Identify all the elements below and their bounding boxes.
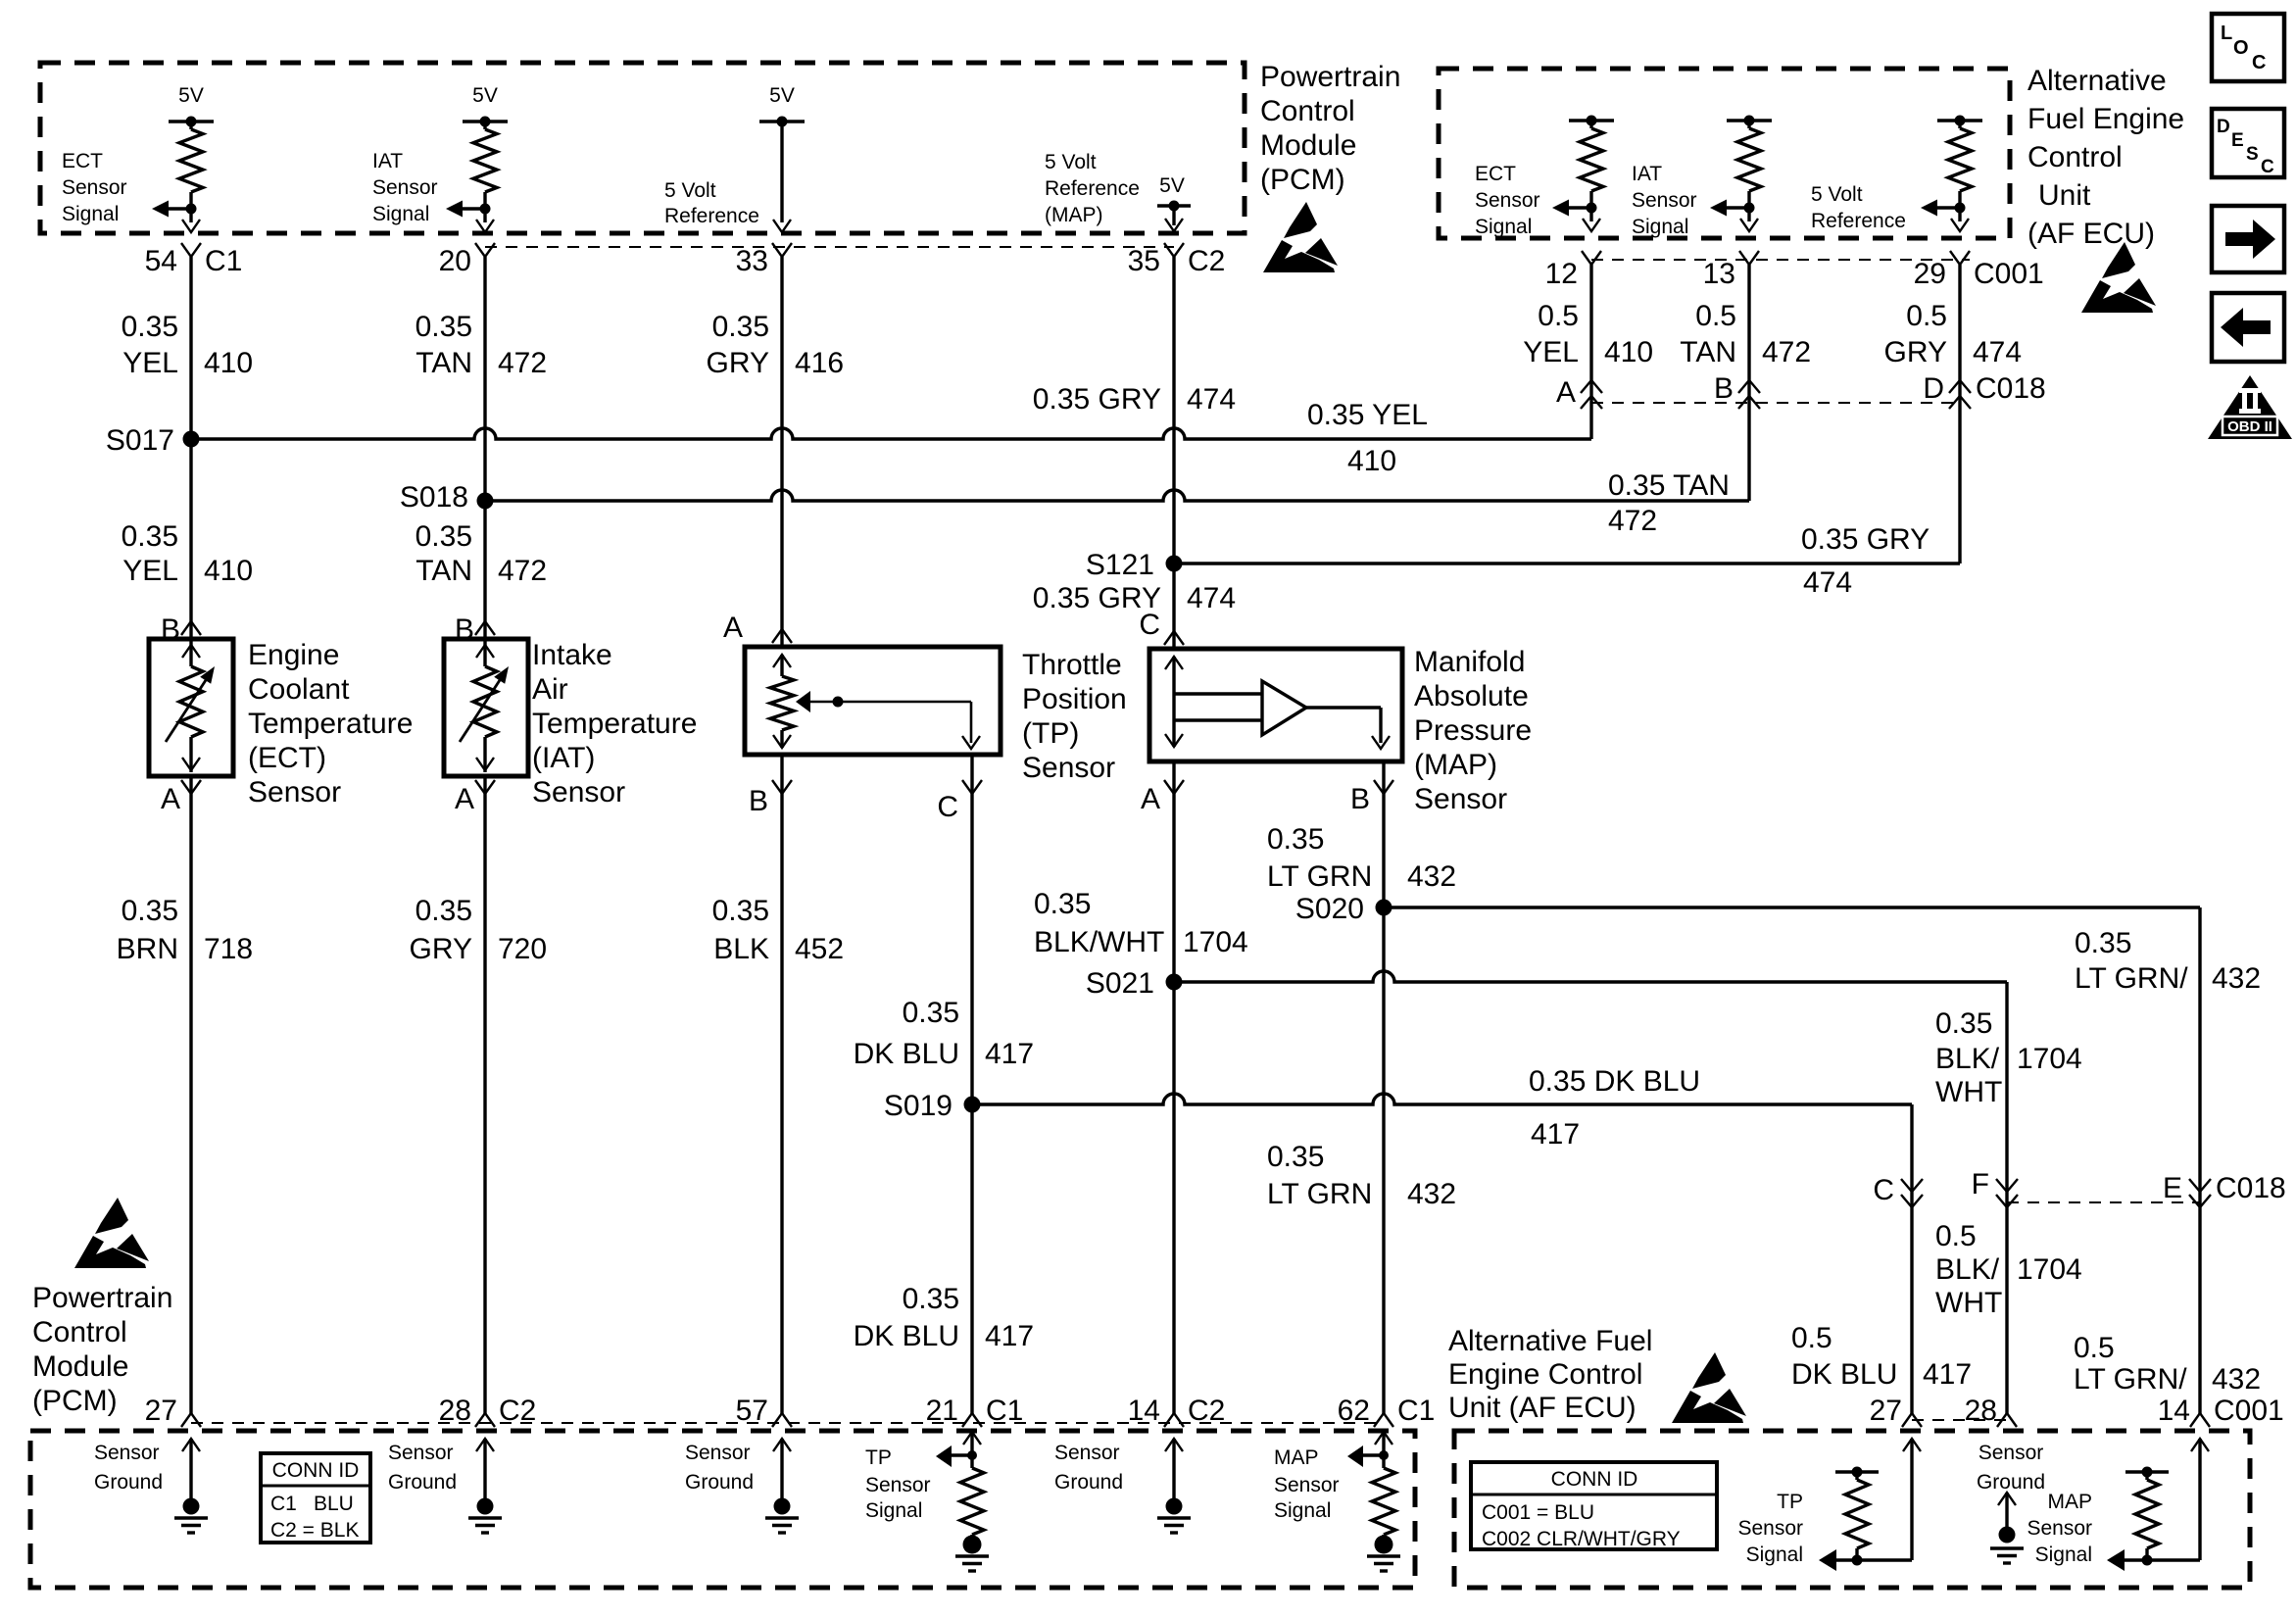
svg-text:C: C	[2261, 157, 2274, 177]
svg-text:13: 13	[1703, 258, 1735, 290]
svg-text:S021: S021	[1086, 967, 1154, 1000]
svg-text:Sensor: Sensor	[532, 776, 625, 808]
svg-text:Signal: Signal	[1475, 216, 1532, 238]
svg-text:C001: C001	[1974, 258, 2044, 290]
svg-text:432: 432	[2212, 1363, 2261, 1396]
svg-text:Throttle: Throttle	[1022, 649, 1122, 681]
svg-text:452: 452	[795, 933, 844, 965]
svg-text:0.35: 0.35	[1267, 823, 1324, 856]
svg-text:C018: C018	[2216, 1172, 2286, 1204]
svg-text:20: 20	[439, 245, 471, 277]
svg-text:Intake: Intake	[532, 639, 612, 671]
svg-text:Sensor: Sensor	[62, 176, 127, 199]
svg-text:Control: Control	[2027, 141, 2123, 173]
svg-text:C001 = BLU: C001 = BLU	[1482, 1501, 1594, 1524]
svg-text:410: 410	[204, 347, 253, 379]
svg-text:Powertrain: Powertrain	[32, 1282, 172, 1314]
svg-text:A: A	[723, 612, 743, 644]
svg-text:Signal: Signal	[1274, 1499, 1331, 1522]
svg-text:Engine Control: Engine Control	[1448, 1358, 1642, 1391]
svg-text:B: B	[749, 785, 768, 817]
svg-text:Control: Control	[1260, 95, 1355, 127]
svg-text:Signal: Signal	[1632, 216, 1688, 238]
svg-text:Module: Module	[32, 1350, 128, 1383]
svg-text:0.35 DK BLU: 0.35 DK BLU	[1529, 1065, 1700, 1098]
svg-text:O: O	[2233, 37, 2249, 59]
svg-text:A: A	[455, 783, 474, 815]
svg-text:417: 417	[985, 1038, 1034, 1070]
svg-text:LT GRN/: LT GRN/	[2075, 962, 2188, 995]
svg-text:BLK/: BLK/	[1935, 1253, 2000, 1286]
svg-text:Sensor: Sensor	[388, 1442, 454, 1464]
svg-text:Signal: Signal	[2035, 1543, 2092, 1566]
svg-text:(MAP): (MAP)	[1414, 749, 1497, 781]
svg-text:BLK: BLK	[713, 933, 769, 965]
svg-text:474: 474	[1803, 566, 1852, 599]
svg-text:YEL: YEL	[122, 347, 178, 379]
svg-text:416: 416	[795, 347, 844, 379]
svg-text:5V: 5V	[769, 84, 795, 107]
svg-text:432: 432	[1407, 860, 1456, 893]
svg-text:0.35 YEL: 0.35 YEL	[1307, 399, 1428, 431]
svg-text:YEL: YEL	[1523, 336, 1579, 368]
svg-text:27: 27	[145, 1395, 177, 1427]
svg-text:C: C	[937, 791, 958, 823]
svg-text:A: A	[1556, 376, 1576, 409]
svg-text:5 Volt: 5 Volt	[1045, 151, 1097, 173]
svg-text:Alternative Fuel: Alternative Fuel	[1448, 1325, 1652, 1357]
svg-text:Air: Air	[532, 673, 568, 706]
svg-text:0.35 GRY: 0.35 GRY	[1033, 383, 1161, 416]
svg-text:GRY: GRY	[410, 933, 472, 965]
svg-text:B: B	[455, 613, 474, 646]
svg-text:410: 410	[1347, 445, 1396, 477]
svg-text:0.35 TAN: 0.35 TAN	[1608, 469, 1730, 502]
svg-text:C2 = BLK: C2 = BLK	[270, 1519, 359, 1542]
svg-text:472: 472	[498, 347, 547, 379]
svg-text:0.35: 0.35	[903, 997, 959, 1029]
svg-text:TAN: TAN	[415, 555, 472, 587]
svg-text:Sensor: Sensor	[248, 776, 341, 808]
svg-text:B: B	[1350, 783, 1370, 815]
svg-text:D: D	[2217, 117, 2230, 137]
svg-text:S121: S121	[1086, 549, 1154, 581]
svg-text:29: 29	[1914, 258, 1946, 290]
svg-text:410: 410	[1604, 336, 1653, 368]
svg-text:0.35: 0.35	[122, 520, 178, 553]
svg-text:(PCM): (PCM)	[1260, 164, 1345, 196]
svg-text:F: F	[1972, 1168, 1989, 1200]
svg-text:5V: 5V	[1159, 174, 1185, 197]
svg-text:1704: 1704	[2017, 1043, 2082, 1075]
svg-text:Sensor: Sensor	[865, 1474, 931, 1496]
svg-text:Signal: Signal	[372, 203, 429, 225]
svg-text:Sensor: Sensor	[685, 1442, 751, 1464]
svg-text:S020: S020	[1295, 893, 1364, 925]
svg-text:TP: TP	[865, 1446, 892, 1469]
svg-text:IAT: IAT	[372, 150, 403, 172]
svg-text:0.35 GRY: 0.35 GRY	[1801, 523, 1930, 556]
svg-text:0.35: 0.35	[1935, 1007, 1992, 1040]
svg-text:CONN ID: CONN ID	[1551, 1468, 1638, 1491]
svg-text:Manifold: Manifold	[1414, 646, 1525, 678]
svg-text:BLU: BLU	[314, 1493, 354, 1515]
svg-text:0.5: 0.5	[1935, 1220, 1977, 1252]
svg-text:MAP: MAP	[2047, 1491, 2092, 1513]
svg-text:472: 472	[1762, 336, 1811, 368]
svg-text:C: C	[1139, 609, 1160, 641]
svg-text:BLK/WHT: BLK/WHT	[1034, 926, 1164, 958]
svg-text:Ground: Ground	[685, 1471, 754, 1494]
svg-text:LT GRN: LT GRN	[1267, 1178, 1372, 1210]
svg-text:Alternative: Alternative	[2027, 65, 2167, 97]
svg-text:0.35: 0.35	[1034, 888, 1091, 920]
svg-text:472: 472	[498, 555, 547, 587]
svg-text:5V: 5V	[472, 84, 498, 107]
svg-text:0.5: 0.5	[1906, 300, 1947, 332]
svg-text:(AF ECU): (AF ECU)	[2027, 218, 2155, 250]
svg-text:DK BLU: DK BLU	[854, 1038, 959, 1070]
svg-text:Sensor: Sensor	[94, 1442, 160, 1464]
svg-text:Reference: Reference	[1811, 210, 1906, 232]
svg-text:Sensor: Sensor	[1475, 189, 1540, 212]
svg-text:410: 410	[204, 555, 253, 587]
svg-text:S018: S018	[400, 481, 468, 514]
svg-text:Reference: Reference	[664, 205, 759, 227]
svg-text:C001: C001	[2214, 1395, 2284, 1427]
svg-text:C002 CLR/WHT/GRY: C002 CLR/WHT/GRY	[1482, 1528, 1681, 1550]
svg-text:Pressure: Pressure	[1414, 714, 1532, 747]
svg-text:Signal: Signal	[1746, 1543, 1803, 1566]
svg-text:TAN: TAN	[415, 347, 472, 379]
svg-text:0.35: 0.35	[415, 895, 472, 927]
svg-text:474: 474	[1973, 336, 2022, 368]
svg-text:0.35: 0.35	[712, 895, 769, 927]
svg-text:12: 12	[1545, 258, 1578, 290]
svg-text:1704: 1704	[2017, 1253, 2082, 1286]
svg-text:TP: TP	[1777, 1491, 1803, 1513]
svg-text:L: L	[2221, 23, 2232, 44]
svg-text:54: 54	[145, 245, 177, 277]
svg-text:Sensor: Sensor	[2027, 1517, 2092, 1540]
svg-text:E: E	[2231, 130, 2244, 151]
svg-text:Sensor: Sensor	[1414, 783, 1507, 815]
svg-text:C: C	[2252, 52, 2266, 73]
svg-text:417: 417	[985, 1320, 1034, 1352]
svg-text:0.5: 0.5	[1695, 300, 1736, 332]
svg-text:Engine: Engine	[248, 639, 339, 671]
svg-text:720: 720	[498, 933, 547, 965]
svg-text:YEL: YEL	[122, 555, 178, 587]
svg-text:Fuel Engine: Fuel Engine	[2027, 103, 2184, 135]
svg-text:Sensor: Sensor	[1632, 189, 1697, 212]
svg-text:DK BLU: DK BLU	[1791, 1358, 1897, 1391]
svg-text:0.35: 0.35	[903, 1283, 959, 1315]
svg-text:C1: C1	[270, 1493, 297, 1515]
svg-text:E: E	[2163, 1172, 2182, 1204]
svg-text:Reference: Reference	[1045, 177, 1140, 200]
svg-text:5 Volt: 5 Volt	[1811, 183, 1863, 206]
svg-text:417: 417	[1923, 1358, 1972, 1391]
svg-text:27: 27	[1870, 1395, 1902, 1427]
svg-text:Temperature: Temperature	[532, 708, 697, 740]
svg-text:28: 28	[1965, 1395, 1997, 1427]
svg-text:474: 474	[1187, 582, 1236, 614]
svg-text:Position: Position	[1022, 683, 1127, 715]
svg-text:(PCM): (PCM)	[32, 1385, 118, 1417]
svg-text:BLK/: BLK/	[1935, 1043, 2000, 1075]
svg-text:Powertrain: Powertrain	[1260, 61, 1400, 93]
svg-text:Unit: Unit	[2038, 179, 2091, 212]
svg-text:0.35: 0.35	[122, 311, 178, 343]
svg-text:33: 33	[736, 245, 768, 277]
svg-text:GRY: GRY	[707, 347, 769, 379]
svg-text:(IAT): (IAT)	[532, 742, 595, 774]
svg-text:Coolant: Coolant	[248, 673, 350, 706]
svg-text:0.35: 0.35	[1267, 1141, 1324, 1173]
svg-text:Ground: Ground	[1977, 1471, 2045, 1494]
svg-text:B: B	[161, 613, 180, 646]
svg-text:432: 432	[1407, 1178, 1456, 1210]
svg-text:5V: 5V	[178, 84, 204, 107]
svg-text:C2: C2	[1188, 245, 1225, 277]
svg-text:35: 35	[1128, 245, 1160, 277]
svg-text:417: 417	[1531, 1118, 1580, 1151]
svg-text:DK BLU: DK BLU	[854, 1320, 959, 1352]
svg-text:MAP: MAP	[1274, 1446, 1319, 1469]
svg-text:A: A	[1141, 783, 1160, 815]
svg-text:S017: S017	[106, 424, 174, 457]
svg-text:0.35: 0.35	[712, 311, 769, 343]
svg-text:1704: 1704	[1183, 926, 1248, 958]
svg-text:ECT: ECT	[1475, 163, 1516, 185]
svg-text:C: C	[1873, 1174, 1894, 1206]
svg-text:TAN: TAN	[1680, 336, 1736, 368]
svg-text:0.5: 0.5	[2074, 1332, 2115, 1364]
svg-text:Ground: Ground	[388, 1471, 457, 1494]
svg-text:C018: C018	[1976, 372, 2046, 405]
svg-text:Ground: Ground	[94, 1471, 163, 1494]
svg-text:LT GRN: LT GRN	[1267, 860, 1372, 893]
svg-text:CONN ID: CONN ID	[272, 1459, 360, 1482]
svg-text:0.35: 0.35	[2075, 927, 2131, 959]
svg-text:C1: C1	[205, 245, 242, 277]
svg-text:472: 472	[1608, 505, 1657, 537]
svg-text:0.35: 0.35	[415, 520, 472, 553]
svg-text:A: A	[161, 783, 180, 815]
svg-text:Absolute: Absolute	[1414, 680, 1529, 712]
svg-text:432: 432	[2212, 962, 2261, 995]
svg-text:0.35: 0.35	[122, 895, 178, 927]
svg-text:Sensor: Sensor	[1978, 1442, 2044, 1464]
svg-text:0.35: 0.35	[415, 311, 472, 343]
svg-text:Sensor: Sensor	[1737, 1517, 1803, 1540]
svg-text:S019: S019	[884, 1090, 953, 1122]
svg-text:WHT: WHT	[1935, 1076, 2002, 1108]
svg-text:0.5: 0.5	[1791, 1322, 1832, 1354]
svg-text:OBD II: OBD II	[2227, 418, 2272, 435]
svg-text:Unit (AF ECU): Unit (AF ECU)	[1448, 1392, 1637, 1424]
svg-text:Sensor: Sensor	[1274, 1474, 1340, 1496]
svg-text:Control: Control	[32, 1316, 127, 1348]
svg-text:Module: Module	[1260, 129, 1356, 162]
svg-text:GRY: GRY	[1884, 336, 1947, 368]
svg-text:IAT: IAT	[1632, 163, 1662, 185]
svg-text:718: 718	[204, 933, 253, 965]
svg-text:Sensor: Sensor	[1022, 752, 1115, 784]
svg-text:474: 474	[1187, 383, 1236, 416]
svg-text:LT GRN/: LT GRN/	[2074, 1363, 2187, 1396]
svg-text:C1: C1	[1397, 1395, 1435, 1427]
svg-text:Temperature: Temperature	[248, 708, 413, 740]
svg-text:BRN: BRN	[117, 933, 178, 965]
svg-text:B: B	[1714, 372, 1734, 405]
svg-text:D: D	[1923, 372, 1944, 405]
svg-text:S: S	[2246, 144, 2259, 165]
svg-text:Signal: Signal	[865, 1499, 922, 1522]
svg-text:(MAP): (MAP)	[1045, 204, 1103, 226]
svg-text:(ECT): (ECT)	[248, 742, 326, 774]
svg-text:14: 14	[2158, 1395, 2190, 1427]
svg-text:Sensor: Sensor	[372, 176, 438, 199]
svg-text:ECT: ECT	[62, 150, 103, 172]
svg-text:5 Volt: 5 Volt	[664, 179, 716, 202]
svg-text:Ground: Ground	[1054, 1471, 1123, 1494]
svg-text:WHT: WHT	[1935, 1287, 2002, 1319]
svg-text:Sensor: Sensor	[1054, 1442, 1120, 1464]
svg-text:(TP): (TP)	[1022, 717, 1079, 750]
svg-text:Signal: Signal	[62, 203, 119, 225]
svg-text:0.5: 0.5	[1538, 300, 1579, 332]
